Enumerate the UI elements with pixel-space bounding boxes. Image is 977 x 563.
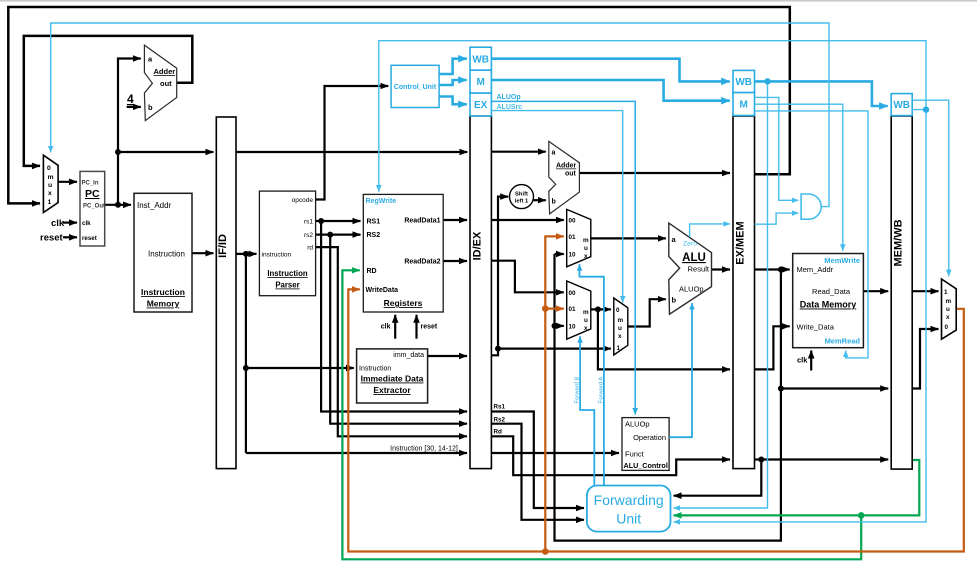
wire WB ID/EX to EX/MEM <box>491 59 729 82</box>
node rs2 junction <box>327 232 333 238</box>
svg-text:rs1: rs1 <box>304 219 313 226</box>
Immediate Data Extractor <box>357 349 428 403</box>
svg-text:clk: clk <box>51 218 65 229</box>
svg-text:IF/ID: IF/ID <box>217 234 229 258</box>
svg-text:reset: reset <box>40 233 64 244</box>
wire mux B out to mux C input 0 <box>591 308 611 310</box>
wire imm_data ID/EX to mux C input 1 <box>491 349 610 356</box>
svg-text:10: 10 <box>569 324 577 331</box>
svg-text:clk: clk <box>82 220 91 227</box>
svg-text:Instruction: Instruction <box>141 287 185 297</box>
svg-text:Extractor: Extractor <box>373 385 411 395</box>
wire rs2 to RS2 <box>316 234 361 236</box>
svg-text:WB: WB <box>472 54 489 65</box>
pipeline field EX of ID/EX <box>470 93 491 116</box>
wire MemRead to Data Memory <box>755 111 869 358</box>
wire Shift left 1 to Adder2 b <box>533 199 545 201</box>
pipeline field WB of EX/MEM <box>733 70 755 92</box>
svg-text:u: u <box>584 317 588 324</box>
adder Adder2 labels <box>552 150 577 206</box>
EX/MEM pipeline register <box>733 116 755 469</box>
mux ForwardB <box>567 281 591 339</box>
wire green MEM/WB Rd to Forwarding Unit and Registers RD <box>674 460 920 515</box>
wire forward to mux A input 10 <box>555 253 564 255</box>
svg-text:M: M <box>477 77 485 88</box>
svg-text:x: x <box>48 190 52 197</box>
svg-text:opcode: opcode <box>292 197 314 204</box>
wire ALUSrc to mux ALUSrc select <box>491 111 622 303</box>
svg-text:4: 4 <box>127 92 134 106</box>
svg-text:m: m <box>946 298 952 305</box>
svg-text:imm_data: imm_data <box>393 352 424 359</box>
svg-text:Forward B: Forward B <box>575 377 581 404</box>
svg-text:Rs1: Rs1 <box>494 404 506 411</box>
wire Funct to ALU_Control <box>491 452 619 454</box>
top window border <box>0 0 977 2</box>
node rs1 junction <box>318 218 324 224</box>
wire imm_data to ID/EX <box>428 355 467 357</box>
node forward 10 junction <box>552 323 558 329</box>
Instruction Parser <box>259 191 315 296</box>
node green junction <box>858 512 865 519</box>
svg-text:ReadData1: ReadData1 <box>404 218 440 225</box>
wire instruction down branch <box>245 254 247 453</box>
svg-text:ALU: ALU <box>682 252 706 264</box>
mux MemtoReg labels <box>944 289 952 331</box>
svg-text:WB: WB <box>735 77 752 88</box>
mux ForwardA labels <box>569 218 590 261</box>
node instruction junction <box>243 251 249 257</box>
mux ForwardB labels <box>569 290 590 332</box>
svg-text:Inst_Addr: Inst_Addr <box>137 201 172 210</box>
wire result forward down <box>555 254 781 541</box>
wire ReadData1 to ID/EX <box>443 219 467 221</box>
svg-text:0: 0 <box>616 307 620 314</box>
svg-text:Funct: Funct <box>625 450 645 459</box>
svg-text:x: x <box>584 325 588 332</box>
pipeline field M of ID/EX <box>470 70 491 93</box>
wire MEM/WB WB junction line <box>674 110 927 522</box>
node Mem_Addr junction <box>778 267 784 273</box>
wire result MEM/WB to final mux input 0 <box>912 329 938 389</box>
Forwarding Unit <box>587 486 671 532</box>
svg-text:0: 0 <box>945 324 949 331</box>
wire Control_Unit to EX <box>439 97 467 105</box>
svg-text:reset: reset <box>82 235 97 242</box>
svg-text:rs2: rs2 <box>304 232 313 239</box>
svg-text:WriteData: WriteData <box>366 287 399 294</box>
mux PCSrc labels <box>47 165 54 206</box>
wire Rd down to Forwarding Unit <box>674 460 762 496</box>
Registers <box>363 194 443 312</box>
wire Rs2 ID/EX to Forwarding Unit <box>491 424 584 520</box>
svg-text:MemRead: MemRead <box>825 337 861 346</box>
node orange junction mux B <box>542 305 549 312</box>
node PC value junction <box>115 149 121 155</box>
wire rs1 down to ID/EX <box>321 221 467 412</box>
svg-text:u: u <box>48 182 52 189</box>
wire EX/MEM result to Mem_Addr <box>755 268 790 270</box>
node orange junction bottom <box>542 548 549 555</box>
wire clk to PC <box>63 222 77 224</box>
Control_Unit <box>391 65 439 107</box>
svg-text:Parser: Parser <box>275 281 299 290</box>
wire opcode to Control Unit <box>316 86 389 200</box>
Forwarding Unit label <box>594 492 664 527</box>
node Rd junction <box>758 457 764 463</box>
pipeline field M of EX/MEM <box>733 93 755 116</box>
ALU_Control <box>622 418 669 471</box>
svg-text:x: x <box>618 333 622 340</box>
svg-text:PC_In: PC_In <box>82 181 99 187</box>
svg-text:M: M <box>740 100 748 111</box>
WB M labels EX/MEM <box>735 77 752 111</box>
svg-text:Instruction: Instruction <box>267 269 308 278</box>
svg-text:Registers: Registers <box>384 298 423 308</box>
wire PC+4 loop Adder out to PC mux input 0 <box>24 36 193 166</box>
wire PCSrc AND gate to PC mux select <box>51 23 829 207</box>
node result bypass junction <box>778 386 784 392</box>
IF/ID pipeline register <box>216 117 236 469</box>
wire Data Memory clk arrow <box>810 351 812 371</box>
wire orange forward to mux B input 01 <box>545 308 564 310</box>
svg-text:Rs2: Rs2 <box>494 417 506 424</box>
WB M EX labels ID/EX <box>472 54 489 111</box>
wire Instruction to IF/ID <box>192 252 213 254</box>
svg-text:u: u <box>618 325 622 332</box>
svg-text:01: 01 <box>569 306 577 313</box>
svg-text:clk: clk <box>381 324 391 331</box>
Data Memory labels <box>797 256 861 365</box>
adder Adder1 <box>144 45 176 121</box>
wire ReadData2 to ID/EX <box>443 260 467 262</box>
pipeline field WB of MEM/WB <box>891 94 912 116</box>
svg-text:RegWrite: RegWrite <box>366 198 397 205</box>
wire orange writeback mux out to Registers WriteData <box>348 289 964 551</box>
svg-text:RD: RD <box>367 268 377 275</box>
wire PC value to IF/ID <box>118 151 213 153</box>
svg-text:Operation: Operation <box>633 433 666 442</box>
wire rs1 to RS1 <box>316 220 361 222</box>
svg-text:01: 01 <box>569 234 577 241</box>
ALU labels <box>672 235 710 305</box>
PC register <box>80 171 105 246</box>
svg-text:1: 1 <box>48 199 52 206</box>
svg-text:rd: rd <box>307 245 313 252</box>
svg-text:RS2: RS2 <box>367 232 381 239</box>
ALU <box>669 223 712 314</box>
ALU_Control labels <box>624 420 668 471</box>
wire Rd EX/MEM to MEM/WB <box>755 458 889 460</box>
svg-text:Zero: Zero <box>683 241 697 248</box>
svg-text:m: m <box>48 174 54 181</box>
wire MemWrite to Data Memory <box>755 104 843 251</box>
wire ReadData2 ID/EX to mux B input 00 <box>491 261 563 293</box>
wire Read_Data MEM/WB to final mux input 1 <box>912 290 938 292</box>
svg-text:Shift: Shift <box>515 192 528 198</box>
wire Rs1 ID/EX to Forwarding Unit <box>491 412 584 509</box>
wire ALUOp to ALU_Control <box>491 101 635 414</box>
wire ReadData1 ID/EX to mux A input 00 <box>491 219 563 221</box>
adder Adder1 labels <box>148 55 175 113</box>
svg-text:Write_Data: Write_Data <box>797 323 835 332</box>
svg-text:Rd: Rd <box>494 429 503 436</box>
wire imm branch up to Shift left 1 <box>498 197 508 349</box>
svg-text:1: 1 <box>944 289 948 296</box>
AND gate <box>801 194 821 219</box>
svg-text:out: out <box>160 79 172 88</box>
svg-text:ID/EX: ID/EX <box>472 231 484 260</box>
wire PC_Out up to Adder a <box>118 59 141 205</box>
mux PCSrc <box>43 155 58 212</box>
wire Registers clk arrow <box>394 315 396 339</box>
wire PC value ID/EX to Adder2 a <box>491 151 545 153</box>
svg-text:ALUOp: ALUOp <box>679 285 704 294</box>
wire Registers reset arrow <box>415 315 417 339</box>
wire Branch to AND gate <box>755 97 799 200</box>
svg-text:RS1: RS1 <box>367 219 381 226</box>
svg-text:Unit: Unit <box>616 511 641 527</box>
wire result bypass to MEM/WB <box>781 387 888 389</box>
node instruction extractor junction <box>243 365 249 371</box>
wire instruction to Immediate Extractor <box>246 367 354 369</box>
svg-text:Immediate Data: Immediate Data <box>361 374 424 384</box>
wire ALU Result to EX/MEM <box>712 268 731 270</box>
Registers labels <box>366 198 441 331</box>
Instruction Parser labels <box>262 197 314 290</box>
mux ALUSrc <box>614 298 628 355</box>
wire Zero EX/MEM to AND gate <box>755 213 799 224</box>
svg-text:ALUOp: ALUOp <box>625 420 650 429</box>
wire PC_Out to Inst_Addr <box>105 204 131 206</box>
svg-text:b: b <box>148 103 153 112</box>
svg-text:x: x <box>584 253 588 260</box>
svg-text:00: 00 <box>569 218 577 225</box>
wire Control_Unit to WB <box>439 59 467 74</box>
svg-text:Instruction: Instruction <box>359 366 391 373</box>
svg-text:Memory: Memory <box>147 299 180 309</box>
svg-text:m: m <box>618 317 624 324</box>
svg-text:u: u <box>946 306 950 313</box>
wire Control_Unit to M <box>439 80 467 85</box>
wire RegWrite MEM/WB to Registers <box>379 41 926 192</box>
svg-text:b: b <box>552 199 556 206</box>
wire Read_Data to MEM/WB <box>863 290 888 292</box>
wire reset to PC <box>63 236 77 238</box>
shift left 1 <box>510 185 534 209</box>
svg-text:EX/MEM: EX/MEM <box>735 221 747 264</box>
node imm junction <box>495 346 501 352</box>
wire forward to mux B input 10 <box>555 325 564 327</box>
svg-text:Mem_Addr: Mem_Addr <box>797 265 834 274</box>
wire Rd ID/EX to EX/MEM <box>491 436 730 475</box>
wire rd down to ID/EX <box>316 247 467 436</box>
wire mux C out to ALU b <box>628 299 666 326</box>
Immediate Data Extractor labels <box>359 352 424 395</box>
svg-text:b: b <box>672 296 677 305</box>
ID/EX pipeline register <box>470 116 491 469</box>
wire rs2 down to ID/EX <box>330 235 467 424</box>
svg-text:1: 1 <box>617 345 621 352</box>
svg-text:clk: clk <box>797 356 808 365</box>
wire EX/MEM WB to Forwarding Unit <box>674 81 768 508</box>
svg-text:ALU_Control: ALU_Control <box>624 461 668 470</box>
shift left 1 label <box>515 192 529 205</box>
node mux B out junction <box>595 306 601 312</box>
PC labels <box>82 181 106 243</box>
svg-text:10: 10 <box>569 252 577 259</box>
svg-text:PC_Out: PC_Out <box>83 204 105 210</box>
svg-text:0: 0 <box>47 165 51 172</box>
svg-text:Instruction: Instruction <box>148 250 185 259</box>
wire ForwardB to mux B select <box>580 336 594 485</box>
wire orange forward to mux A input 01 <box>545 236 564 551</box>
svg-text:instruction: instruction <box>262 252 292 259</box>
svg-text:out: out <box>565 171 577 178</box>
Instruction Memory labels <box>137 201 185 309</box>
node PC_Out junction <box>115 202 121 208</box>
wire PC mux out to PC_In <box>58 181 77 183</box>
svg-text:u: u <box>584 245 588 252</box>
node cyan junction EX/MEM WB <box>764 78 770 84</box>
Data Memory <box>793 254 864 348</box>
svg-text:ALUOp: ALUOp <box>497 94 521 101</box>
Instruction Memory <box>134 193 192 312</box>
svg-text:left 1: left 1 <box>515 199 529 205</box>
svg-text:MemWrite: MemWrite <box>824 256 860 265</box>
node cyan junction MEM/WB WB <box>923 106 929 112</box>
wire PC value IF/ID to ID/EX <box>236 151 467 153</box>
svg-text:Read_Data: Read_Data <box>812 287 851 296</box>
svg-text:MEM/WB: MEM/WB <box>893 219 905 266</box>
wire WB EX/MEM to MEM/WB <box>755 81 888 106</box>
svg-text:Control_Unit: Control_Unit <box>394 84 437 91</box>
wire instruction IF/ID to Parser <box>236 253 257 255</box>
wire mux A out to ALU a <box>591 237 666 239</box>
svg-text:m: m <box>583 309 589 316</box>
wire 4 to Adder b <box>127 106 141 108</box>
mux MemtoReg <box>942 279 957 339</box>
adder Adder2 <box>549 141 580 213</box>
svg-text:Data Memory: Data Memory <box>800 300 857 310</box>
wire mux B out down to EX/MEM Write_Data <box>598 309 730 369</box>
svg-text:00: 00 <box>569 290 577 297</box>
svg-text:EX: EX <box>474 100 488 111</box>
svg-text:Instruction [30, 14-12]: Instruction [30, 14-12] <box>390 446 458 453</box>
svg-text:reset: reset <box>421 324 438 331</box>
svg-text:WB: WB <box>893 100 910 111</box>
pipeline field WB of ID/EX <box>470 47 491 70</box>
svg-text:x: x <box>946 314 950 321</box>
svg-text:Forward A: Forward A <box>599 377 605 404</box>
svg-text:ReadData2: ReadData2 <box>404 259 440 266</box>
svg-text:a: a <box>552 150 556 157</box>
svg-text:m: m <box>583 237 589 244</box>
wire Adder2 out to EX/MEM <box>579 172 730 174</box>
svg-text:Result: Result <box>688 265 710 274</box>
mux ALUSrc labels <box>616 307 624 352</box>
wire EX/MEM Write_Data jog to Data Memory <box>755 326 790 369</box>
wire Zero to EX/MEM <box>690 224 730 237</box>
wire Instruction [30,14-12] to ID/EX <box>246 452 467 454</box>
wire MEM/WB WB to final mux select <box>913 100 949 276</box>
svg-text:ALUSrc: ALUSrc <box>497 104 523 111</box>
wire M ID/EX to EX/MEM <box>491 80 729 101</box>
wire branch-target loop EX/MEM to PC mux input 1 <box>8 7 790 203</box>
wire ForwardA to mux A select <box>580 264 604 485</box>
svg-text:Adder: Adder <box>556 163 577 170</box>
mux ForwardA <box>567 209 591 266</box>
svg-text:PC: PC <box>85 188 100 200</box>
wire Operation to ALU <box>669 303 692 437</box>
svg-text:Adder: Adder <box>154 67 176 76</box>
svg-text:Forwarding: Forwarding <box>594 492 664 508</box>
MEM/WB pipeline register <box>891 116 912 469</box>
